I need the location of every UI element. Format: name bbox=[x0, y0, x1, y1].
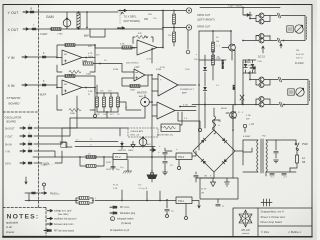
capacitor C13 (filter) bbox=[158, 148, 173, 170]
oscillator board boundary (dashed) bbox=[3, 111, 39, 113]
pot VOLUME ADJ bbox=[139, 137, 151, 148]
resistor R att bbox=[50, 27, 61, 30]
wire sum to jack bbox=[186, 28, 188, 50]
op-amp U2 bbox=[62, 80, 82, 95]
value label +-32 bbox=[176, 148, 178, 151]
transformer T1 primary bbox=[243, 140, 258, 172]
capacitor C72 bbox=[165, 199, 174, 217]
wire drop circle x152 bbox=[150, 157, 153, 175]
diode bias cluster bbox=[243, 59, 256, 74]
X IN connector pin bbox=[27, 80, 46, 86]
bridge diode b bbox=[222, 159, 227, 164]
value label F6Δ-36 bbox=[262, 135, 266, 138]
value label a-15 bbox=[196, 54, 198, 56]
Q pair loop 2 bbox=[242, 36, 277, 42]
label +15V U3 bbox=[146, 59, 152, 61]
terminal box T6.2 bbox=[113, 154, 127, 160]
resistor R zig U2 bbox=[69, 108, 81, 111]
value label 10K-7 bbox=[103, 114, 107, 116]
wire bus x205 bbox=[198, 60, 206, 150]
value label ··-46 bbox=[220, 29, 222, 31]
label 3-WAY bbox=[40, 33, 48, 36]
node GND label bbox=[5, 162, 11, 165]
value label ·-35 bbox=[244, 132, 245, 134]
wire right bus x233 bbox=[232, 105, 234, 178]
resistor R fb U2 bbox=[65, 74, 75, 77]
sub-board box (output gnd) bbox=[200, 178, 238, 199]
transistor Q7 bbox=[259, 83, 264, 88]
wire pot wiper bbox=[66, 12, 68, 29]
value label ··-37 bbox=[284, 136, 286, 138]
label +15V U4 bbox=[134, 67, 140, 69]
test circle x44 bbox=[43, 183, 46, 190]
Y IN (osc) connector pin bbox=[28, 148, 32, 153]
chassis ground (3-stroke) bbox=[261, 199, 272, 206]
value label ··-18 bbox=[207, 98, 209, 100]
label ATTENUATOR BOARD bbox=[7, 96, 22, 106]
diode D2 bbox=[203, 87, 207, 105]
test point +15 bbox=[243, 123, 254, 132]
label stub 2 bbox=[138, 185, 148, 201]
resistor R40 (bias) bbox=[95, 93, 98, 112]
potentiometer MASTER bbox=[137, 92, 149, 107]
node Y OUT label bbox=[8, 11, 20, 15]
value label 560-2 bbox=[84, 36, 88, 38]
value label 1K-29 bbox=[88, 154, 91, 156]
Y IN (osc) input arrow bbox=[20, 150, 26, 152]
caps mains bbox=[270, 173, 286, 175]
GND connector pin bbox=[28, 162, 32, 165]
value label R=0.4Ω-43 bbox=[296, 54, 304, 56]
value label ··-3 bbox=[52, 33, 54, 35]
op-amp U5 (driver A) bbox=[152, 74, 196, 96]
note line 3 bbox=[47, 223, 74, 226]
title text line1 bbox=[261, 210, 284, 214]
wire U4 out to vol bbox=[151, 74, 153, 95]
value label 47K-0 bbox=[96, 55, 100, 57]
label 4.7 U6 bbox=[179, 105, 196, 108]
chassis gnd in box bbox=[225, 178, 230, 186]
U2 gnd stub bbox=[94, 110, 97, 118]
Q pair loop 3 bbox=[249, 71, 278, 85]
resistor 25K upper bbox=[172, 10, 175, 29]
value label ··-11 bbox=[150, 90, 152, 92]
ground filter bbox=[163, 170, 168, 175]
label stub 1 bbox=[113, 185, 122, 201]
label 47K top bbox=[88, 46, 92, 48]
Y IN input arrow bbox=[22, 56, 28, 58]
label 500K U2 bbox=[70, 113, 76, 115]
resistor R gain (vertical) bbox=[77, 11, 80, 30]
diode D1 bbox=[203, 60, 207, 86]
value label C··-24 bbox=[90, 145, 93, 147]
label -17 +17 bbox=[270, 177, 287, 179]
resistor R41 (bias) bbox=[102, 93, 105, 112]
value label 470R-12 bbox=[160, 67, 165, 69]
value label ··-41 bbox=[70, 201, 72, 203]
U5 input labels bbox=[160, 79, 162, 93]
value label NB:-42 bbox=[296, 50, 300, 52]
lamp/fuse F1 bbox=[277, 13, 305, 18]
label 100K U4 bbox=[130, 90, 136, 92]
label C WER bbox=[243, 62, 256, 72]
potentiometer GAIN bbox=[63, 18, 71, 29]
node X IN label bbox=[8, 84, 15, 88]
wire att loop bbox=[90, 29, 105, 37]
wire mid vertical x152 bbox=[151, 48, 153, 158]
ground sym 2 bbox=[177, 160, 180, 170]
resistor 25K lower bbox=[162, 27, 175, 46]
wire +rail top bbox=[200, 7, 280, 9]
transformer T1 core bbox=[261, 139, 263, 173]
label 47K U1a bbox=[88, 53, 94, 58]
junction top bus bbox=[119, 9, 126, 11]
value label 560R-28 bbox=[106, 169, 111, 171]
value label ·-22 bbox=[162, 30, 163, 32]
notes area boundary (dashed) bbox=[3, 208, 46, 237]
resistor R out 1.5K bbox=[211, 50, 221, 80]
label 2K driver bbox=[217, 57, 220, 59]
wire bus x205b bbox=[204, 55, 206, 128]
U2 feedback loop bbox=[57, 76, 96, 110]
wire U1 out right bbox=[95, 45, 135, 48]
note line 4 bbox=[44, 229, 75, 232]
title text line3 bbox=[261, 220, 283, 224]
wire top bus to spkr connector bbox=[118, 10, 186, 12]
zener pair bbox=[238, 95, 251, 121]
X OUT connector pin bbox=[32, 25, 36, 31]
op-amp U4 bbox=[122, 64, 152, 82]
op-amp U1 bbox=[62, 50, 82, 65]
wire reg line A bbox=[75, 128, 120, 142]
label BUFF bbox=[40, 94, 47, 97]
value label +-33 bbox=[159, 145, 161, 148]
label GNDL bbox=[43, 163, 53, 166]
note line 2 bbox=[47, 217, 77, 220]
wire U6 low out bbox=[178, 112, 202, 132]
label reg A bbox=[76, 140, 80, 142]
speaker return bus B bbox=[307, 80, 309, 105]
X IN input arrow bbox=[22, 84, 28, 86]
Y OUT (osc) connector pin bbox=[28, 133, 32, 138]
resistor R rail 1 bbox=[86, 155, 96, 158]
value label ··-14 bbox=[188, 73, 190, 75]
wire X IN to amp bbox=[46, 85, 62, 88]
notes sub lines bbox=[6, 220, 19, 234]
title block frame bbox=[233, 208, 312, 237]
node SH IN (osc) label bbox=[5, 143, 12, 146]
resistor R43 (bias) bbox=[116, 93, 119, 112]
junction X in bbox=[56, 87, 58, 89]
value label MASTER-25 bbox=[118, 149, 127, 152]
Q pair loop top bbox=[249, 12, 277, 22]
icon fuse box A bbox=[287, 26, 293, 32]
wire bias top bbox=[96, 85, 118, 94]
X OUT input arrow bbox=[23, 28, 29, 30]
value label 560R-27 bbox=[106, 162, 111, 164]
wire bus x235 bbox=[232, 50, 235, 105]
lamp/fuse F4 bbox=[279, 102, 308, 107]
note line 8 bbox=[110, 229, 130, 232]
label 25K upper bbox=[144, 18, 149, 21]
value label ·-40 bbox=[40, 190, 41, 192]
label FROM X DEFL bbox=[228, 5, 243, 8]
wire +rail drop bbox=[242, 7, 252, 17]
capacitor C line bbox=[274, 140, 279, 163]
U6 feedback wire bbox=[161, 112, 182, 127]
Q pair loop 4 bbox=[242, 60, 279, 105]
arrow down x26 bbox=[25, 177, 27, 184]
value label 25K-49 bbox=[153, 18, 157, 20]
wire SH IN run bbox=[34, 128, 128, 144]
value label · ·-20 bbox=[280, 8, 282, 10]
transistor Q4 bbox=[259, 38, 264, 43]
junction Y in bbox=[56, 57, 58, 59]
label 560R bbox=[57, 33, 90, 38]
value label RIM-48 bbox=[148, 14, 152, 16]
op-amp U6 (driver B) bbox=[152, 102, 196, 119]
value label 4.7-17 bbox=[216, 85, 220, 87]
label 6.3VAC bbox=[243, 135, 251, 138]
icon speaker jack B bbox=[296, 88, 304, 96]
wire GNDL run bbox=[34, 151, 62, 163]
value label 1200-13 bbox=[185, 69, 190, 71]
wire bridge top bbox=[214, 120, 220, 130]
node Y IN label bbox=[8, 56, 15, 60]
value label ··-45 bbox=[306, 107, 308, 109]
transistor Q10 bbox=[226, 105, 236, 128]
GND input arrow bbox=[20, 162, 26, 164]
wire reg line B bbox=[75, 146, 155, 148]
label 25K lower bbox=[144, 36, 149, 39]
lamp/fuse F2 bbox=[277, 38, 305, 48]
value label 1K-1 bbox=[104, 60, 107, 62]
zener dark (heatsink mark) bbox=[147, 170, 158, 182]
Y IN connector pin bbox=[27, 52, 46, 58]
speaker return bus A bbox=[304, 16, 306, 41]
wire Y IN run (to rail) bbox=[34, 151, 55, 157]
transistor Q6 bbox=[259, 77, 264, 82]
label MOUNTED bbox=[126, 63, 139, 65]
label R 100 ohm note bbox=[295, 62, 304, 65]
title copyright bbox=[261, 230, 281, 234]
capacitor C14 bbox=[189, 172, 198, 182]
component box misc bbox=[157, 124, 180, 137]
value label 5W, 5x-44 bbox=[296, 58, 304, 60]
resistor pair lower bbox=[76, 198, 97, 205]
value label C·WER-19 bbox=[246, 65, 254, 67]
value label ·-16 bbox=[200, 57, 201, 59]
label GAIN bbox=[46, 15, 54, 19]
connector J3 (gnd) bbox=[186, 50, 190, 54]
junction X OUT bus bbox=[117, 27, 124, 29]
note line 6 bbox=[110, 212, 136, 215]
wire main lower rail bbox=[25, 200, 200, 208]
Y OUT connector pin 20 bbox=[30, 8, 34, 14]
node SH OUT (osc) label bbox=[5, 127, 15, 130]
note line 1 bbox=[47, 210, 72, 217]
transistor Q3 bbox=[259, 34, 264, 39]
wire bias bottom bbox=[97, 111, 118, 118]
bridge diode c bbox=[201, 159, 206, 164]
value label ··-39 bbox=[222, 173, 224, 175]
value label 10μ-30 bbox=[120, 167, 123, 169]
resistor R driver bbox=[211, 37, 220, 52]
wire PWSG line bbox=[25, 192, 62, 201]
label BULB bbox=[221, 108, 227, 110]
label 470R bbox=[113, 69, 119, 71]
label vert conn A bbox=[306, 17, 308, 39]
driver stage left vert bbox=[198, 31, 200, 60]
regulator +15 (dashed box) bbox=[128, 128, 158, 137]
transistor Q5 (pre) bbox=[222, 30, 235, 60]
SH IN (osc) input arrow bbox=[20, 143, 26, 145]
transistor Q2 bbox=[259, 19, 264, 24]
note line 7 bbox=[111, 217, 135, 226]
bridge rectifier BR1 bbox=[193, 130, 235, 172]
wire bridge right bbox=[235, 140, 243, 165]
label SPKR OUT 2 bbox=[197, 25, 211, 29]
title author Bubba bbox=[288, 230, 302, 234]
wire Y OUT bus (top) bbox=[28, 11, 118, 13]
transistor Q8 bbox=[259, 97, 264, 102]
transistor Q9 bbox=[259, 102, 264, 107]
driver stage top rail bbox=[199, 30, 231, 32]
driver stage inner vert bbox=[212, 30, 214, 60]
switch S1 PWR bbox=[295, 140, 308, 153]
terminal box T611 bbox=[176, 197, 192, 204]
label vert conn B bbox=[309, 81, 311, 101]
value label ··-34 bbox=[236, 127, 238, 129]
wire U2 out right bbox=[94, 88, 96, 94]
label 470R U5 bbox=[156, 69, 162, 71]
wire branch y166 bbox=[80, 157, 104, 166]
fuse F5 bbox=[290, 153, 306, 168]
value label S··-38 bbox=[210, 176, 213, 178]
bridge diode d bbox=[201, 138, 206, 143]
value label 47-10 bbox=[125, 107, 128, 109]
ground tri in box bbox=[211, 178, 216, 187]
resistor R mix in bbox=[83, 62, 122, 65]
wire main rail bbox=[33, 151, 196, 157]
wire master link bbox=[118, 101, 153, 118]
transformer T1 secondary bbox=[266, 140, 296, 172]
resistor pair upper bbox=[75, 196, 94, 201]
title text line2 bbox=[261, 215, 286, 219]
label DC 15V bbox=[257, 46, 265, 63]
wire Y IN to amp bbox=[46, 56, 62, 59]
logo text ATLAN bbox=[241, 228, 250, 235]
U1 feedback loop bbox=[57, 44, 96, 72]
resistor R zig U1 bbox=[69, 70, 81, 73]
attenuator board boundary (dashed) bbox=[38, 5, 40, 208]
note line 5 bbox=[110, 206, 130, 209]
lamp/fuse F3 bbox=[278, 77, 308, 82]
label 100K U2t bbox=[86, 74, 92, 76]
callout TO X DEFL (NOT BOARD) bbox=[120, 12, 140, 24]
label POWERVOLT AMP bbox=[180, 89, 194, 94]
label SPKR OUT (LEFT+RIGHT) bbox=[197, 13, 215, 22]
SH OUT (osc) connector pin bbox=[28, 125, 32, 130]
Y OUT input arrow bbox=[23, 11, 29, 13]
value label 1K-9 bbox=[117, 114, 120, 116]
terminal box T612 bbox=[176, 153, 192, 160]
node Y IN (osc) label bbox=[5, 150, 10, 153]
label 24.5F GN bbox=[201, 189, 207, 195]
op-amp U3 (summing) bbox=[133, 11, 164, 56]
value label C···-23 bbox=[90, 139, 94, 141]
value label 2K2-5 bbox=[108, 91, 113, 93]
value label 4K7-8 bbox=[110, 114, 115, 116]
chassis hatch gnd bbox=[123, 160, 132, 174]
ground sym reg bbox=[131, 142, 135, 148]
wire SH OUT run bbox=[34, 96, 77, 128]
driver stage bottom rail bbox=[199, 59, 226, 61]
capacitor C17 below box bbox=[216, 199, 225, 208]
U4 feedback bbox=[122, 75, 148, 88]
bridge diode a bbox=[222, 138, 227, 143]
icon speaker jack A bbox=[295, 25, 303, 33]
SH IN (osc) connector pin bbox=[28, 141, 32, 146]
label 3.7 CM bbox=[221, 60, 223, 69]
value label ··-31 bbox=[194, 146, 196, 148]
label OSCILLATOR BOARD bbox=[5, 116, 22, 124]
label NOTES heading bbox=[7, 214, 40, 221]
resistor R42 (bias) bbox=[109, 93, 112, 112]
icon fuse box B bbox=[288, 89, 294, 95]
wire X OUT bus bbox=[28, 28, 186, 30]
Y OUT (osc) input arrow bbox=[20, 135, 26, 137]
label 1.5KW U2 bbox=[88, 91, 93, 96]
node Y OUT (osc) label bbox=[5, 135, 13, 138]
wire reg drop bbox=[159, 191, 161, 201]
diode reg bbox=[120, 142, 124, 150]
SH OUT (osc) input arrow bbox=[20, 127, 26, 129]
step sigma bbox=[60, 142, 72, 148]
wire bridge bottom bbox=[196, 172, 214, 178]
inductor choke bbox=[212, 108, 221, 134]
label GN top bbox=[204, 176, 208, 178]
wire y118 run bbox=[70, 117, 145, 119]
wire sum node vertical bbox=[162, 10, 164, 48]
wire Y OUT run bbox=[34, 118, 70, 136]
wire cap branch bbox=[111, 157, 120, 171]
transistor Q1 bbox=[259, 13, 264, 18]
logo ATLAN (triangle art) bbox=[239, 210, 252, 227]
label amp ATL bbox=[40, 164, 50, 167]
resistor R rail 2 bbox=[86, 164, 96, 167]
wire mains bottom bbox=[266, 168, 290, 176]
resistor R in U3 bbox=[120, 44, 133, 50]
resistor R fb U1 bbox=[65, 43, 75, 46]
value label 15K-4 bbox=[100, 91, 104, 93]
ground circ 2 bbox=[185, 204, 188, 220]
wire bus tie x87 bbox=[86, 11, 88, 28]
value label WAVE-26 bbox=[128, 149, 134, 152]
label 560R mix bbox=[82, 61, 88, 63]
connector J1 SPKR OUT L+R bbox=[186, 8, 191, 13]
value label 25K-47 bbox=[194, 59, 198, 61]
label 150K U1 bbox=[68, 75, 74, 77]
value label 25K-21 bbox=[168, 35, 172, 37]
wire h y105 bbox=[192, 104, 243, 106]
value label 10K-6 bbox=[96, 114, 100, 116]
node X OUT label bbox=[8, 28, 20, 32]
arrow down reg bbox=[150, 147, 156, 152]
U3 feedback bbox=[133, 33, 153, 44]
connector J2 SPKR OUT bbox=[186, 25, 191, 30]
junction rail a bbox=[79, 156, 105, 158]
